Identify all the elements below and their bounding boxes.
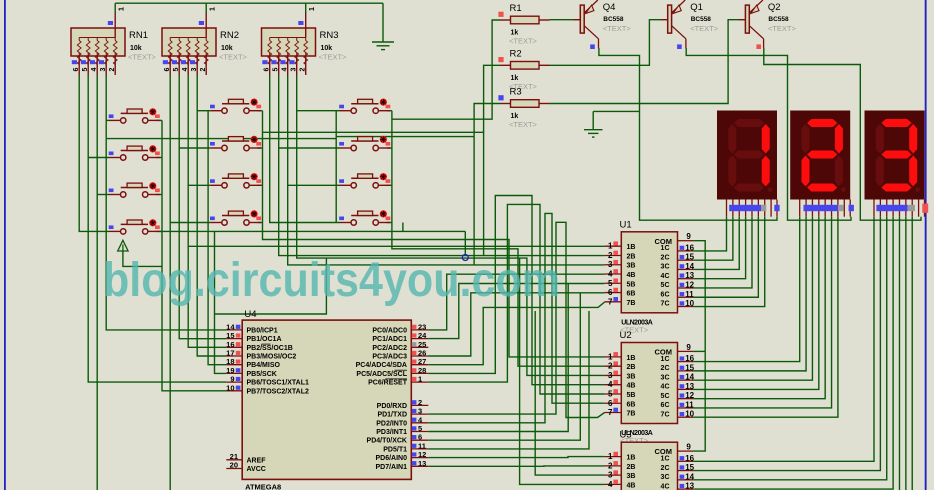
svg-text:4: 4 [281,68,288,72]
svg-text:11: 11 [685,290,694,299]
svg-text:2: 2 [608,362,613,371]
svg-text:4B: 4B [627,383,636,390]
wire B1 drop to node [464,231,466,254]
wire col2 right link [258,110,263,112]
svg-text:2C: 2C [661,365,670,372]
svg-text:AVCC: AVCC [247,466,266,473]
svg-text:13: 13 [418,459,426,468]
svg-text:2: 2 [608,461,613,470]
svg-text:PD1/TXD: PD1/TXD [377,412,407,419]
svg-text:3C: 3C [661,264,670,271]
wire RN3 pin6 to col3 row4 [270,75,340,223]
svg-text:BC558: BC558 [603,16,624,23]
svg-text:3: 3 [290,68,297,72]
wire col3 right link [387,184,392,186]
svg-text:9: 9 [686,232,691,241]
svg-text:3C: 3C [661,374,670,381]
wire col2 right link [258,184,263,186]
wire RN1 pin4 down off-sheet [96,75,98,490]
wire digit2 seg1 [693,217,806,371]
overline SCL on PC5 [395,369,408,371]
svg-text:PC1/ADC1: PC1/ADC1 [372,336,407,343]
wire PD5 up join [428,311,589,449]
svg-text:1: 1 [608,352,613,361]
svg-text:2B: 2B [627,364,636,371]
svg-text:1B: 1B [627,355,636,362]
wire arrow branch [123,251,162,266]
7-segment display digit3 showing 3 [865,111,925,200]
svg-text:10k: 10k [321,45,333,52]
wire PD6 to U3 pin1 [428,457,604,458]
push button keypad col1 row2 [109,157,120,159]
wire aux b [263,131,484,133]
svg-text:<TEXT>: <TEXT> [128,53,157,62]
svg-text:5: 5 [608,279,613,288]
wire PC6 to U2 pin5 [428,204,604,394]
wire col2 link to U4 pin18 [208,223,226,365]
svg-text:PB3/MOSI/OC2: PB3/MOSI/OC2 [247,354,297,361]
push button keypad col3 row3 [340,184,351,186]
svg-text:4B: 4B [627,272,636,279]
ULN2003A U2 [621,343,677,424]
svg-text:AREF: AREF [247,457,267,464]
svg-text:COM: COM [655,447,673,456]
svg-text:1B: 1B [627,455,636,462]
wire RN3 pin3 to bus B4 [297,75,605,375]
push button keypad col3 row2 [340,147,351,149]
svg-text:R3: R3 [510,87,522,98]
wire RN2 pin4 to U4 pin16 [188,75,226,347]
wire col1 right link [156,230,162,232]
push button keypad col2 row3 [210,184,221,186]
wire col1 row1 stub [106,119,109,121]
svg-text:3: 3 [100,68,107,72]
wire R3 to Q2 base [550,20,740,104]
wire Q2 collector to digit3 CA [764,48,921,220]
wire col2 row3 stub [188,184,210,186]
wire PD4 up join [428,293,580,440]
svg-text:RN2: RN2 [220,30,239,41]
wire drop to U3 pin3 [535,311,604,475]
svg-text:1k: 1k [511,30,519,37]
digit2 pin state bar [804,205,839,211]
svg-text:7: 7 [608,408,613,417]
wire aux c [336,136,474,138]
overline RESET on PC6 [386,378,408,380]
wire PD7 to U3 pin2 [428,465,604,467]
svg-text:4: 4 [91,68,98,72]
svg-text:3: 3 [608,471,613,480]
wire R3 left drop [474,104,500,265]
svg-text:PB7/TOSC2/XTAL2: PB7/TOSC2/XTAL2 [247,388,309,395]
svg-text:10k: 10k [130,45,142,52]
svg-text:3: 3 [191,68,198,72]
wire digit3 seg5 down off-sheet [905,217,907,490]
svg-text:PD6/AIN0: PD6/AIN0 [375,455,407,462]
svg-text:PB6/TOSC1/XTAL1: PB6/TOSC1/XTAL1 [247,380,309,387]
wire drop to U3 pin4 [520,258,605,484]
wire col3 row3 stub [288,184,340,186]
push button keypad col2 row2 [210,147,221,149]
wire PC4 to U1 pin7 [428,302,604,365]
wire RN3 pin4 to U1 pin3 [288,75,605,265]
wire digit2 seg5 [693,217,831,408]
svg-text:5C: 5C [661,282,670,289]
wire digit2 seg2 [693,217,812,380]
wire PC1 to U1 pin5 [428,284,604,339]
wire COM chain [693,241,705,451]
node junction marker [462,255,468,261]
digit1 pin state bar [729,205,761,211]
svg-text:2C: 2C [661,254,670,261]
svg-text:PB2/SS/OC1B: PB2/SS/OC1B [247,345,293,352]
svg-text:R2: R2 [510,48,522,59]
svg-text:PC0/ADC0: PC0/ADC0 [372,327,407,334]
wire stair to U4 pin19 [215,231,227,373]
push button keypad col2 row4 [210,222,221,224]
svg-text:<TEXT>: <TEXT> [319,53,348,62]
wire col3 row2 stub [279,147,340,149]
ground arrow symbol [118,240,128,251]
ground top [372,3,394,49]
wire PC3 to U1 pin6 [428,293,604,356]
svg-text:PD5/T1: PD5/T1 [383,446,407,453]
svg-text:PD4/T0/XCK: PD4/T0/XCK [367,438,407,445]
right sheet border [925,0,927,490]
wire col3 right link [387,110,392,112]
push button keypad col2 row1 [210,110,221,112]
push button keypad col3 row4 [340,222,351,224]
svg-text:3: 3 [608,371,613,380]
wire digit1 seg3 [693,217,746,279]
wire digit2 seg3 [693,217,819,390]
resistor network RN3 10k [262,28,316,56]
wire digit3 seg4 down off-sheet [898,217,900,490]
svg-text:RN1: RN1 [129,30,148,41]
svg-text:PC3/ADC3: PC3/ADC3 [372,354,407,361]
wire col3 right link [387,222,392,224]
svg-text:20: 20 [230,461,238,470]
wire RN2 pin1 up [205,3,207,13]
wire col1 column line to U4 pin10 [162,120,226,390]
svg-text:<TEXT>: <TEXT> [509,120,538,129]
svg-text:PC2/ADC2: PC2/ADC2 [372,345,407,352]
svg-text:PD3/INT1: PD3/INT1 [376,429,407,436]
svg-text:11: 11 [685,400,694,409]
wire Q1 collector to digit2 CA [686,48,851,220]
svg-text:1: 1 [210,7,217,11]
svg-text:U4: U4 [244,309,256,320]
svg-text:5: 5 [82,68,89,72]
svg-text:26: 26 [418,349,426,358]
svg-text:7: 7 [608,297,613,306]
svg-text:14: 14 [226,322,235,331]
wire col3 column line to bus B3 [392,111,605,367]
svg-text:4C: 4C [661,273,670,280]
wire col2 right link [258,222,263,224]
wire row4 bus B1 [160,230,466,232]
svg-text:PB1/OC1A: PB1/OC1A [247,336,282,343]
wire col3 left link [335,111,337,223]
svg-text:3B: 3B [627,373,636,380]
svg-text:5: 5 [173,68,180,72]
svg-text:R1: R1 [510,3,522,14]
transistor Q4 BC558 [580,5,584,33]
svg-text:3: 3 [608,260,613,269]
wire digit3 seg0 [693,217,874,462]
wire col2 row1 stub [197,110,210,112]
resistor R1 1k [501,19,511,21]
push button keypad col1 row3 [109,194,120,196]
svg-text:Q2: Q2 [768,2,781,13]
svg-text:PB0/ICP1: PB0/ICP1 [247,327,278,334]
resistor R2 1k [501,64,511,66]
wire col3 right link [387,147,392,149]
svg-text:2: 2 [299,68,306,72]
left sheet border [4,0,6,490]
svg-text:PB5/SCK: PB5/SCK [247,371,277,378]
svg-text:<TEXT>: <TEXT> [690,24,719,33]
svg-text:1: 1 [608,242,613,251]
wire top common bus [115,2,383,4]
svg-text:Q4: Q4 [603,2,616,13]
transistor Q1 BC558 [668,5,672,33]
svg-text:PD0/RXD: PD0/RXD [377,403,407,410]
wire col2 left link [207,111,209,223]
svg-text:24: 24 [418,331,427,340]
svg-text:3B: 3B [627,263,636,270]
wire U1 pin1 line [188,245,604,247]
7-segment display digit2 showing 2 [790,111,850,200]
svg-text:RN3: RN3 [320,30,339,41]
wire digit1 seg0 [693,217,726,251]
ATMEGA8 U4 left pins PB0-PB7 [226,329,242,331]
svg-text:5C: 5C [661,393,670,400]
svg-text:1C: 1C [661,356,670,363]
wire digit1 seg2 [693,217,739,270]
svg-text:2B: 2B [627,253,636,260]
wire digit1 seg5 [693,217,758,298]
wire col2 column line to bus B2 [263,111,605,357]
svg-text:10: 10 [226,383,234,392]
wire col2 right link [258,147,263,149]
wire RN3 pin5 to U1 pin2 [279,75,605,256]
push button keypad col1 row1 [109,119,120,121]
svg-text:6B: 6B [627,291,636,298]
svg-text:6B: 6B [627,401,636,408]
wire digit3 seg2 [693,217,887,480]
svg-text:U2: U2 [620,330,632,341]
svg-text:1: 1 [119,7,126,11]
svg-text:PC6/RESET: PC6/RESET [368,380,408,387]
wire PC5 to U2 pin4 [428,196,604,385]
svg-text:3C: 3C [661,474,670,481]
svg-text:BC558: BC558 [691,16,712,23]
wire col1 row3 stub [97,194,109,196]
push button keypad col1 row4 [109,230,120,232]
svg-text:2: 2 [418,398,422,407]
ULN2003A U3 [621,442,677,490]
svg-text:28: 28 [418,366,426,375]
svg-text:<TEXT>: <TEXT> [219,53,248,62]
svg-text:COM: COM [655,237,673,246]
svg-text:1C: 1C [661,456,670,463]
svg-text:4C: 4C [661,384,670,391]
svg-text:2: 2 [608,251,613,260]
svg-text:4: 4 [608,380,613,389]
svg-text:5: 5 [418,424,422,433]
wire RN1 pin6 to col1 row4 [79,75,109,231]
wire PD2 loop to U2 pin6 [428,213,604,422]
svg-text:blog.circuits4you.com: blog.circuits4you.com [103,254,560,307]
wire U2 COM tap [693,350,705,352]
wire Q4 collector to digit1 CA [599,48,777,220]
svg-text:21: 21 [230,452,238,461]
wire R2 to Q1 base [550,20,662,66]
svg-text:7B: 7B [627,411,636,418]
svg-text:1: 1 [309,7,316,11]
svg-text:17: 17 [226,349,234,358]
svg-text:5: 5 [608,389,613,398]
svg-text:1: 1 [418,375,422,384]
svg-text:1k: 1k [511,113,519,120]
wire col1 right link [156,119,162,121]
svg-text:3: 3 [418,407,422,416]
svg-text:6: 6 [418,433,422,442]
wire RN3 pin1 up [305,3,307,13]
wire col2 row2 stub [179,147,210,149]
svg-text:4: 4 [608,270,613,279]
svg-text:4B: 4B [627,482,636,489]
wire RN1 pin5 to U4 pin9 [88,75,226,382]
overline SS on PB2 [262,343,271,345]
svg-text:2B: 2B [627,464,636,471]
svg-text:27: 27 [418,357,426,366]
svg-text:<TEXT>: <TEXT> [509,37,538,46]
svg-text:BC558: BC558 [768,16,789,23]
svg-text:2: 2 [109,68,116,72]
svg-text:23: 23 [418,322,426,331]
wire digit2 seg4 [693,217,825,399]
svg-text:5B: 5B [627,281,636,288]
wire R1 to Q4 base [550,19,575,21]
svg-text:1: 1 [608,452,613,461]
svg-text:6: 6 [73,68,80,72]
svg-text:15: 15 [226,331,234,340]
svg-text:3B: 3B [627,473,636,480]
wire RN2 pin5 to U4 pin15 [179,75,226,339]
svg-text:9: 9 [686,343,691,352]
digit3 pin state bar [876,205,907,211]
wire RN1 pin1 up [114,3,116,13]
svg-text:6: 6 [263,68,270,72]
svg-text:2C: 2C [661,465,670,472]
svg-text:5B: 5B [627,392,636,399]
svg-text:6: 6 [608,399,613,408]
wire RN2 pin6 down off-sheet [169,75,171,490]
wire col1 right link [156,157,162,159]
svg-text:10k: 10k [221,45,233,52]
ATMEGA8 U4 right pins PC0-PC6 [411,329,428,331]
svg-text:PD2/INT0: PD2/INT0 [376,420,407,427]
svg-text:19: 19 [226,366,234,375]
wire digit1 seg1 [693,217,733,260]
wire digit3 seg1 [693,217,880,471]
svg-text:16: 16 [226,340,234,349]
svg-text:5: 5 [272,68,279,72]
svg-text:6: 6 [164,68,171,72]
wire R2 left drop [484,65,501,255]
svg-text:U1: U1 [620,219,632,230]
wire PD1 loop to U2 pin7 [428,222,604,417]
svg-text:1C: 1C [661,245,670,252]
svg-text:1k: 1k [511,75,519,82]
wire link under U4 label [215,258,327,314]
ground middle [584,111,603,137]
svg-text:<TEXT>: <TEXT> [768,24,797,33]
svg-text:18: 18 [226,357,234,366]
svg-text:7C: 7C [661,411,670,418]
svg-text:6C: 6C [661,402,670,409]
wire col3 row1 stub [297,110,340,112]
wire col1 right link [156,194,162,196]
wire link row1 to col3 [106,138,336,140]
svg-text:4C: 4C [661,483,670,490]
wire PC0 to U1 pin4 [428,274,604,330]
wire digit1 seg4 [693,217,752,288]
svg-text:PD7/AIN1: PD7/AIN1 [375,464,407,471]
svg-text:9: 9 [686,443,691,452]
svg-text:7B: 7B [627,300,636,307]
wire col2 row4 stub [170,222,210,224]
svg-text:U3: U3 [620,430,632,441]
wire digit1 seg6 [693,217,765,307]
resistor network RN2 10k [162,28,216,56]
svg-text:25: 25 [418,340,426,349]
ATMEGA8 U4 box [242,320,411,479]
push button keypad col3 row1 [340,110,351,112]
svg-text:<TEXT>: <TEXT> [603,24,632,33]
svg-text:4: 4 [608,480,613,489]
svg-text:Q1: Q1 [690,2,703,13]
svg-text:COM: COM [655,348,673,357]
wire digit2 seg6 [693,217,838,418]
wire digit3 seg3 [693,217,893,489]
transistor Q2 BC558 [745,5,749,33]
ATMEGA8 U4 right pins PD0-PD7 [411,404,428,406]
ATMEGA8 U4 pins AREF AVCC [226,459,242,461]
wire RN1 pin3 to U4 pin14 [106,75,226,330]
wire digit2 seg0 [693,217,800,362]
svg-text:PC5/ADC5/SCL: PC5/ADC5/SCL [356,371,407,378]
svg-text:7C: 7C [661,301,670,308]
svg-text:ATMEGA8: ATMEGA8 [245,483,281,490]
wire col1 row2 stub [88,157,109,159]
wire digit3 seg6 down off-sheet [911,217,913,490]
wire col3 row4 jog [402,223,404,232]
resistor network RN1 10k [71,28,125,56]
wire ground branch [593,110,639,112]
svg-text:PB4/MISO: PB4/MISO [247,362,281,369]
svg-text:4: 4 [182,68,189,72]
svg-text:11: 11 [418,441,426,450]
svg-text:2: 2 [200,68,207,72]
svg-text:PC4/ADC4/SDA: PC4/ADC4/SDA [356,362,407,369]
resistor R3 1k [501,103,511,105]
7-segment display digit1 showing 1 [717,111,777,200]
svg-text:12: 12 [418,450,426,459]
wire PD3 up join [428,284,568,432]
